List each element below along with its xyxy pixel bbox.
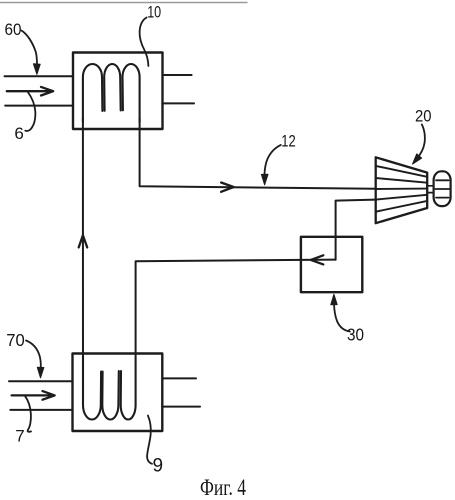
shaft coupling [427,186,433,193]
leader 9 [147,416,152,464]
svg-text:Фиг. 4: Фиг. 4 [200,475,246,500]
flow arrow 6 [7,87,53,96]
flow arrow left in box 30 [311,255,324,264]
svg-text:70: 70 [6,330,25,350]
leader 7 [25,396,31,432]
generator windings [435,180,449,197]
leader 10 [140,18,149,67]
pipe right top of box 10 [162,74,191,76]
leader 60 [22,31,38,65]
leader 30 [334,304,350,332]
condenser box 30 [301,237,362,292]
scan artifact top line [0,2,247,4]
svg-text:7: 7 [15,427,24,446]
generator [434,171,451,206]
leader 6 [25,92,35,131]
heat exchanger box 9 [73,354,163,432]
svg-text:6: 6 [14,124,23,143]
svg-text:20: 20 [415,106,432,125]
pipe right top of box 9 [162,377,196,379]
pipe left bottom of box 10 [5,105,73,107]
svg-text:10: 10 [147,3,161,22]
pipe right bottom of box 10 [162,102,194,104]
svg-text:12: 12 [281,132,296,151]
leader 20 [416,124,425,159]
pipe right bottom of box 9 [162,406,200,408]
turbine 20 [376,157,428,223]
wire turbine exhaust [336,200,376,260]
flow arrow on line 12 [221,183,234,192]
svg-text:60: 60 [5,20,22,39]
turbine internal vanes [376,166,428,212]
wire riser from box 9 to box 10 [82,118,84,404]
flow arrow up on riser [79,235,88,247]
coil in box 10 [83,64,140,122]
wire condensate return [136,260,336,358]
pipe left top of box 9 [9,380,73,382]
heat exchanger box 10 [73,53,163,130]
leader 12 [264,145,280,177]
flow arrow 7 [12,391,55,400]
svg-text:30: 30 [347,325,364,345]
pipe left bottom of box 9 [10,409,72,411]
pipe left top of box 10 [5,75,74,77]
wire line 12 [140,118,376,189]
coil in box 9 [83,356,136,420]
svg-text:9: 9 [153,456,164,477]
leader 70 [26,341,41,368]
